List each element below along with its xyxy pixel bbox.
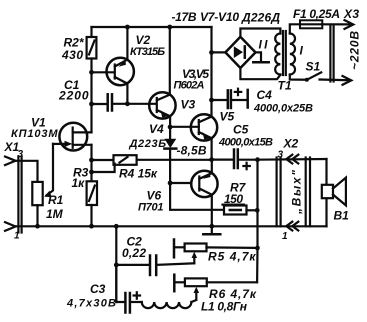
svg-text:„Вых": „Вых" xyxy=(290,170,304,215)
connector X1 pin 3 arrow xyxy=(5,157,16,166)
transformer T1 core xyxy=(283,31,286,75)
switch S1 xyxy=(305,72,321,81)
svg-text:4000,0х25В: 4000,0х25В xyxy=(253,103,313,115)
wire left bus V1 drain to R3 xyxy=(90,145,92,182)
ground chassis symbol under V6 xyxy=(203,226,220,234)
node V6 collector on ground rail xyxy=(209,224,214,229)
node bus hook junction xyxy=(89,170,94,175)
wire V2 collector to rail xyxy=(126,27,128,60)
chassis ground bar at C4 xyxy=(246,90,249,108)
potentiometer R1 wiper arrow xyxy=(44,191,52,198)
transformer T1 winding I xyxy=(290,34,295,75)
fuse F1 xyxy=(300,20,322,28)
svg-text:-8,5В: -8,5В xyxy=(177,144,207,158)
rectifier bridge V7-V10 xyxy=(225,37,255,68)
svg-text:3: 3 xyxy=(278,150,284,161)
node R7 right junction xyxy=(255,208,260,213)
connector X1 body double line xyxy=(18,157,21,233)
svg-text:КТ315Б: КТ315Б xyxy=(130,46,165,58)
label 150 underline xyxy=(223,204,245,206)
wire bridge right to chassis screen xyxy=(256,52,262,60)
svg-text:L1 0,8Гн: L1 0,8Гн xyxy=(201,300,248,314)
svg-text:S1: S1 xyxy=(306,60,321,74)
transistor V5 xyxy=(191,114,217,140)
svg-text:F1 0,25А: F1 0,25А xyxy=(293,7,340,21)
capacitor C3 xyxy=(116,265,142,313)
svg-text:R5 4,7к: R5 4,7к xyxy=(208,250,256,264)
node V4 cathode / V6 base junction xyxy=(168,181,173,186)
wire V1 gate to R1 wiper xyxy=(47,144,54,195)
svg-text:V7-V10: V7-V10 xyxy=(200,10,239,24)
capacitor C1 xyxy=(92,94,157,110)
svg-text:С5: С5 xyxy=(233,123,249,137)
node junction V3 collector on rail xyxy=(167,25,172,30)
svg-text:V5: V5 xyxy=(220,110,235,124)
node branch top on ground rail xyxy=(114,224,119,229)
wire V2 base lead xyxy=(92,71,114,73)
wire left bus (R2 bottom to V1 source tap) xyxy=(90,72,92,132)
svg-text:Д223Б: Д223Б xyxy=(129,138,167,150)
svg-text:КП103М: КП103М xyxy=(11,128,58,140)
diode V4 xyxy=(164,139,176,183)
svg-text:1к: 1к xyxy=(72,176,86,190)
svg-text:R4 15к: R4 15к xyxy=(119,167,158,181)
svg-text:1: 1 xyxy=(282,231,288,242)
resistor R3 xyxy=(87,181,97,226)
node R1 bottom on ground rail xyxy=(35,224,40,229)
svg-text:0,22: 0,22 xyxy=(122,246,146,260)
transistor V1 xyxy=(53,123,92,151)
inductor L1 xyxy=(142,300,197,308)
connector X1 pin 1 arrow xyxy=(5,222,16,231)
svg-text:V4: V4 xyxy=(149,122,164,136)
connector X2 body double line left xyxy=(277,158,281,227)
wire rail to bridge xyxy=(212,51,226,53)
svg-text:С3: С3 xyxy=(90,282,106,296)
svg-text:R1: R1 xyxy=(48,193,64,207)
node R4 left junction xyxy=(89,158,94,163)
potentiometer R6 xyxy=(174,275,257,299)
transistor V3 xyxy=(149,92,175,118)
wire V2 emitter down to C1 node xyxy=(126,84,128,104)
capacitor C4 xyxy=(212,89,247,108)
wire V5 base lead xyxy=(170,126,199,128)
wire switch to X3 with arrow xyxy=(320,76,352,85)
wire output feedback rail x257 xyxy=(256,160,259,283)
node C2 tap junction xyxy=(114,263,119,268)
node R5 right junction xyxy=(255,246,260,251)
wire supply branch x211 (rail to V5 collector) xyxy=(210,27,212,116)
svg-text:430: 430 xyxy=(61,48,83,62)
wire ground rail xyxy=(16,225,327,227)
node C5 right junction xyxy=(255,157,260,162)
node C1 left junction xyxy=(89,102,94,107)
node V2 emitter / C1 / V3 base junction xyxy=(125,101,130,106)
svg-text:1: 1 xyxy=(14,231,20,242)
wire V6 emitter up to output node xyxy=(211,160,213,174)
wire V5 emitter to output node xyxy=(211,138,213,159)
node V2 base junction xyxy=(89,70,94,75)
resistor R2 xyxy=(87,27,97,72)
svg-text:П602А: П602А xyxy=(174,80,205,92)
svg-text:4000,0х15В: 4000,0х15В xyxy=(218,137,273,149)
wire V4 node down and right to R7 xyxy=(170,183,224,210)
wire V3 collector to rail xyxy=(169,27,171,95)
wire top supply rail xyxy=(92,26,212,28)
transistor V6 xyxy=(191,171,217,197)
connector X2 pin 3 chevrons xyxy=(286,155,298,164)
node R3 bottom on ground rail xyxy=(89,224,94,229)
node bridge output junction xyxy=(209,50,214,55)
node V3 emitter / V4 / V5 base junction xyxy=(168,125,173,130)
wire winding I top to fuse xyxy=(290,24,300,33)
svg-text:2200: 2200 xyxy=(58,88,89,102)
connector X3 body double line xyxy=(330,26,333,82)
svg-text:Т1: Т1 xyxy=(278,79,292,93)
resistor R4 xyxy=(92,155,212,165)
wire bridge top to winding II top xyxy=(240,29,280,37)
wire V6 collector down to ground rail xyxy=(211,195,213,226)
node C4 junction xyxy=(209,98,214,103)
svg-text:Х2: Х2 xyxy=(283,137,299,151)
node junction V2 collector on rail xyxy=(125,25,130,30)
wire bus hook below R4 xyxy=(92,164,115,172)
wire V3 emitter to V4 xyxy=(169,116,171,139)
transistor V2 xyxy=(107,58,134,85)
svg-text:V3: V3 xyxy=(181,98,196,112)
svg-text:II: II xyxy=(259,38,269,52)
transformer T1 winding II xyxy=(275,34,280,75)
node output junction (V5e,V6e,R4,C5) xyxy=(209,157,214,162)
wire output node to X2 top xyxy=(258,158,327,161)
connector X2 pin 1 chevrons xyxy=(286,222,298,231)
capacitor C5 xyxy=(212,150,258,170)
chassis ground bar at transformer screen xyxy=(253,61,268,64)
svg-text:1М: 1М xyxy=(46,207,64,221)
svg-text:Д226Д: Д226Д xyxy=(241,11,280,25)
potentiometer R1 xyxy=(16,161,43,226)
svg-text:4,7х30В: 4,7х30В xyxy=(66,298,116,310)
speaker B1 xyxy=(322,178,346,206)
svg-text:I: I xyxy=(300,44,304,58)
wire winding I bottom to switch xyxy=(290,75,307,80)
svg-text:П701: П701 xyxy=(138,202,164,214)
potentiometer R5 xyxy=(174,240,257,264)
wire bridge bottom to winding II bottom xyxy=(240,68,280,79)
wire C2/C3 branch vertical xyxy=(115,226,117,302)
svg-text:V6: V6 xyxy=(147,189,162,203)
wire fuse to X3 with arrow xyxy=(322,20,353,29)
svg-text:С4: С4 xyxy=(257,88,273,102)
wire speaker loop xyxy=(325,159,327,226)
connector X2 body double line right xyxy=(306,158,310,227)
resistor R7 xyxy=(224,206,257,215)
svg-text:~220В: ~220В xyxy=(348,31,362,70)
svg-text:Х3: Х3 xyxy=(343,7,359,21)
svg-text:В1: В1 xyxy=(334,209,350,223)
wire V6 base lead xyxy=(170,182,191,184)
svg-text:3: 3 xyxy=(18,149,24,160)
svg-text:-17В: -17В xyxy=(172,10,197,24)
capacitor C2 xyxy=(116,256,194,276)
